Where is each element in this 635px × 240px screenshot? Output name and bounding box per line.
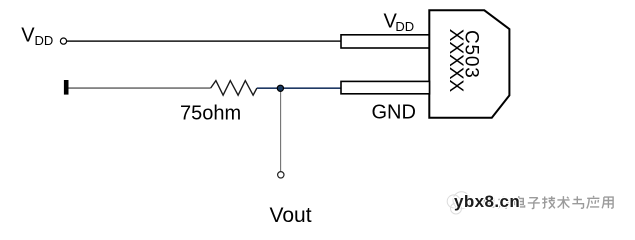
watermark logo circles — [447, 192, 470, 214]
svg-text:75ohm: 75ohm — [180, 102, 241, 124]
pin 1 rectangle (VDD lead) — [341, 35, 430, 48]
svg-text:ybx8.cn: ybx8.cn — [454, 192, 520, 211]
watermark Chinese caption (embossed gray glyphs) — [486, 197, 615, 210]
terminal T1 (open circle, VDD input) — [60, 38, 66, 44]
pin 2 rectangle (GND lead) — [341, 81, 430, 93]
wire (blue net, resistor to GND pin) — [257, 87, 342, 89]
wire (VDD net, terminal to pin 1) — [67, 40, 342, 42]
svg-text:XXXXX: XXXXX — [445, 29, 466, 93]
svg-text:Vout: Vout — [270, 204, 312, 227]
wire (junction down to Vout terminal) — [280, 88, 282, 171]
wire (input to resistor) — [69, 87, 211, 89]
junction node (Vout tap) — [277, 85, 283, 91]
terminal T2 (input stub bar) — [64, 80, 69, 95]
terminal T3 (open circle, Vout) — [278, 172, 284, 178]
IC U1 body (C503 package outline) — [429, 10, 509, 118]
resistor R1 75ohm — [211, 81, 257, 96]
svg-text:GND: GND — [372, 102, 416, 124]
